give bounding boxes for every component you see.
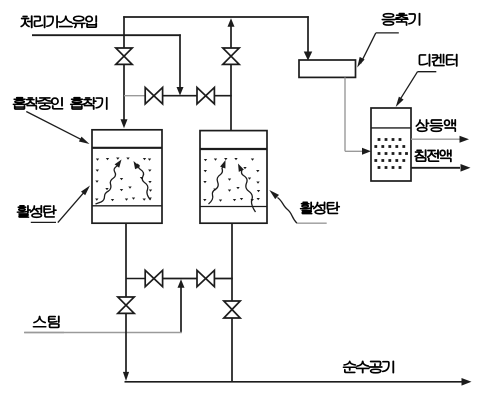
valve V1 (adsorber1 top) [116, 48, 132, 64]
carbon bed dots T2 [203, 158, 260, 202]
wire valve V2 to adsorber2 top [230, 64, 232, 130]
wire header to valve V2 [230, 26, 232, 48]
adsorber vessel T2 shell [200, 131, 267, 224]
wire inlet line under 처리가스유입 [32, 34, 181, 36]
wire valve V1 to adsorber1 [123, 64, 125, 121]
label 스팀 (steam) [33, 316, 59, 328]
arrow steam into crossover [178, 279, 185, 288]
label 디켄터 (decanter) [419, 54, 457, 66]
adsorption squiggle arrow T2 right [238, 164, 256, 213]
leader 활성탄 right to adsorber2 [269, 190, 326, 223]
wire condenser outlet run to decanter [345, 150, 363, 152]
decanter D1 body [371, 108, 411, 181]
wire riser adsorber1 top [123, 16, 125, 48]
label 흡착중인 흡착기 (adsorber in service) [13, 97, 107, 109]
wire lower crossover mid [163, 278, 197, 280]
arrow up to top header [228, 18, 235, 27]
label 활성탄 left (activated carbon) [17, 205, 56, 217]
arrow condensate into decanter [362, 148, 371, 155]
leader 응축기 to condenser [357, 33, 399, 68]
wire steam supply line [24, 332, 182, 334]
wire vent header (pure air line) [125, 381, 463, 383]
arrow inlet into crossover pipe [177, 87, 184, 96]
wire valve V5 to vent header [125, 313, 127, 372]
leader 디켄터 to decanter [396, 72, 437, 107]
arrow into adsorber1 top [121, 119, 128, 128]
decanter sediment dots [374, 138, 408, 169]
valve V2 (adsorber2 top) [223, 48, 239, 64]
label 활성탄 right (activated carbon) [300, 202, 340, 214]
valve V7 (lower crossover left) [145, 270, 162, 286]
adsorption squiggle arrow T2 left [209, 160, 226, 204]
wire upper crossover right stub [214, 95, 231, 97]
carbon bed dots T1 [95, 158, 152, 202]
desorption squiggle arrow T1 left [96, 160, 122, 205]
wire adsorber1 bottom leg [125, 223, 127, 297]
vessel T1 top band line [92, 147, 162, 149]
label 침전액 (sediment liquid) [415, 150, 452, 162]
wire valve V6 to vent header [231, 318, 233, 382]
adsorber vessel T1 shell [92, 130, 162, 223]
arrow supernatant outlet [460, 136, 470, 143]
wire upper crossover mid [163, 95, 197, 97]
wire lower crossover left stub [126, 278, 145, 280]
valve V3 (upper crossover left) [145, 88, 162, 104]
valve V6 (adsorber2 bottom) [224, 301, 240, 318]
wire inlet down leg [179, 34, 181, 88]
valve V4 (upper crossover right) [197, 88, 214, 104]
wire top header (valve A outlet to condenser) [123, 16, 309, 18]
arrow sediment outlet [461, 164, 471, 172]
leader 흡착중인흡착기 to adsorber1 [26, 112, 89, 145]
wire supernatant outlet [411, 138, 460, 140]
label 순수공기 (pure air) [343, 361, 394, 373]
valve V8 (lower crossover right) [197, 270, 214, 286]
wire steam riser [180, 287, 182, 333]
leader 활성탄 left to adsorber1 [31, 186, 90, 223]
wire sediment outlet [411, 167, 460, 169]
label 처리가스유입 (treated gas inlet) [21, 16, 97, 28]
vessel T2 top band line [200, 148, 267, 150]
label 상등액 (supernatant) [416, 119, 456, 131]
arrow down to vent header [123, 372, 129, 381]
arrow into condenser top [304, 52, 313, 61]
wire adsorber2 bottom leg [231, 223, 233, 301]
wire lower crossover right stub [214, 278, 232, 280]
decanter interface line [371, 127, 411, 129]
leader underline 스팀 [25, 332, 65, 334]
wire upper crossover left stub [124, 95, 145, 97]
valve V5 (adsorber1 bottom) [118, 297, 134, 313]
vessel T1 bottom band line [92, 205, 162, 207]
label 응축기 (condenser) [382, 13, 420, 25]
wire condenser outlet drop [344, 77, 346, 151]
wire condenser drop leg [307, 16, 309, 52]
desorption squiggle arrow T1 right [134, 161, 151, 200]
arrow pure air outlet [462, 378, 472, 386]
condenser E1 body [299, 60, 356, 77]
vessel T2 bottom band line [200, 206, 267, 208]
